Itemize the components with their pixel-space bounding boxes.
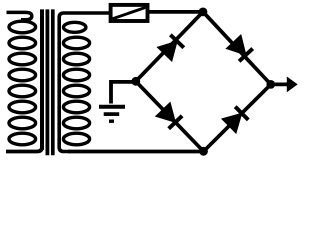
- transformer T1 primary winding bottom lead: [6, 147, 42, 152]
- wire bridge upper-left side (left node to top node): [136, 12, 203, 82]
- transformer T1 primary winding right-side return wire: [40, 9, 44, 150]
- transformer core line 1: [46, 9, 50, 155]
- wire bridge lower-right side (bottom node to right node): [204, 84, 271, 151]
- wire left node to ground: [111, 82, 137, 104]
- fuse F1 body: [111, 5, 148, 21]
- node junction dot at right of bridge (DC output node): [266, 80, 275, 89]
- wire bridge upper-right side (top node to right node): [203, 12, 271, 85]
- transformer T1 primary winding top lead: [7, 12, 32, 19]
- transformer T1 secondary winding left-side return wire with top and bottom leads: [59, 13, 109, 152]
- node junction dot at top of bridge: [199, 7, 208, 16]
- wire bridge lower-left side (left node to bottom node): [136, 81, 204, 151]
- fuse F1 internal diagonal strip: [113, 7, 146, 18]
- wire bottom lead from secondary winding to bottom node: [68, 150, 205, 154]
- output arrow head: [287, 77, 298, 93]
- node junction dot at bottom of bridge: [199, 147, 208, 156]
- diode D2 (conducts top node to right node): [226, 35, 252, 61]
- diode D1 (conducts left node to top node): [157, 35, 183, 61]
- ground symbol: [99, 107, 125, 121]
- wire output arrow shaft: [271, 83, 289, 87]
- transformer T1 secondary winding loops: [63, 22, 89, 145]
- diode D3 (conducts left node to bottom node): [156, 102, 182, 128]
- node junction dot at left of bridge: [131, 77, 140, 86]
- transformer T1 primary winding loops: [9, 21, 36, 145]
- diode D4 (conducts bottom node to right node): [222, 107, 248, 133]
- wire fuse to top node: [148, 10, 205, 14]
- transformer core line 2: [51, 9, 55, 155]
